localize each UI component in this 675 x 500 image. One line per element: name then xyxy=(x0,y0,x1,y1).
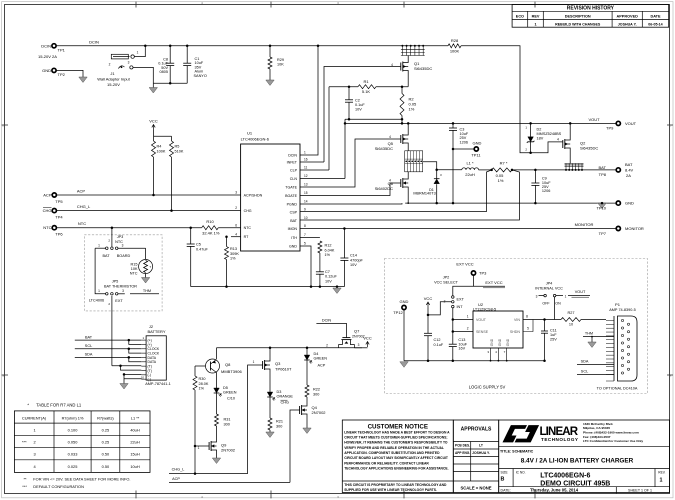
wire Q9 gate xyxy=(195,445,209,447)
wire R4/R5 top bar xyxy=(154,135,172,137)
svg-text:APPLICATION. COMPONENT SUBSTI: APPLICATION. COMPONENT SUBSTITUTION AND … xyxy=(344,451,440,455)
wire D4 to R22 xyxy=(306,360,308,385)
wire L1 to R7 xyxy=(479,169,492,171)
svg-text:10: 10 xyxy=(304,216,308,220)
svg-text:DESCRIPTION: DESCRIPTION xyxy=(565,15,591,19)
wire U2 VIN pin xyxy=(523,319,545,321)
svg-text:D3: D3 xyxy=(277,390,282,394)
resistor R29 xyxy=(269,46,271,57)
resistor R30 xyxy=(194,366,196,376)
svg-text:0.47uF: 0.47uF xyxy=(196,247,209,251)
capacitor C11 xyxy=(544,320,546,332)
svg-text:309K: 309K xyxy=(230,252,239,256)
transistor Q2 xyxy=(562,140,564,148)
svg-text:HOWEVER, IT REMAINS THE CUSTOM: HOWEVER, IT REMAINS THE CUSTOMER'S RESPO… xyxy=(344,441,448,445)
svg-text:VERIFY PROPER AND RELIABLE OPE: VERIFY PROPER AND RELIABLE OPERATION IN … xyxy=(344,446,444,450)
capacitor C7 xyxy=(316,271,324,273)
ground at R15 xyxy=(145,274,147,278)
svg-text:CSP: CSP xyxy=(290,210,298,214)
wire Q8 collector to D5 xyxy=(216,373,218,389)
svg-text:DEFAULT CONFIGURATION: DEFAULT CONFIGURATION xyxy=(33,484,84,489)
wire CLN pin xyxy=(300,178,345,180)
svg-text:C/10: C/10 xyxy=(227,396,235,400)
wire switch node xyxy=(423,162,462,170)
svg-text:REV: REV xyxy=(532,15,540,19)
svg-text:SCL: SCL xyxy=(85,344,92,348)
svg-text:Thursday, June 05, 2014: Thursday, June 05, 2014 xyxy=(530,488,579,493)
svg-text:L1 *: L1 * xyxy=(466,160,474,165)
svg-text:INFET: INFET xyxy=(287,160,298,164)
svg-text:R4: R4 xyxy=(157,145,162,149)
svg-text:DATE:: DATE: xyxy=(501,489,511,493)
resistor R22 xyxy=(305,385,309,397)
svg-text:28.0K: 28.0K xyxy=(199,382,209,386)
size and ic number xyxy=(512,469,514,487)
svg-text:1: 1 xyxy=(34,427,36,432)
svg-text:Q8: Q8 xyxy=(225,362,231,367)
wire Q8 base to R30 xyxy=(195,365,206,367)
svg-text:4700pF: 4700pF xyxy=(350,258,364,262)
svg-text:DATE: DATE xyxy=(650,15,661,19)
wire JP4 common down to VIN net xyxy=(545,297,562,320)
test point TP10 GND xyxy=(616,201,620,205)
svg-text:R1: R1 xyxy=(363,79,369,84)
wire INFET pin xyxy=(300,161,324,163)
svg-text:Q7: Q7 xyxy=(354,329,360,334)
svg-text:300: 300 xyxy=(276,425,282,429)
ground input bus xyxy=(149,88,157,94)
wire DCIN rail xyxy=(57,45,449,47)
wire CSP sense xyxy=(300,170,492,212)
svg-text:VOUT: VOUT xyxy=(625,121,637,126)
svg-text:TP1: TP1 xyxy=(58,48,66,53)
svg-text:MONITOR: MONITOR xyxy=(625,226,644,231)
svg-text:C11: C11 xyxy=(550,328,557,332)
svg-text:ACP: ACP xyxy=(318,363,326,367)
svg-text:0805: 0805 xyxy=(160,70,168,74)
svg-text:TP7: TP7 xyxy=(599,231,607,236)
svg-text:BAT: BAT xyxy=(85,336,93,340)
wire Q3 source from rail xyxy=(269,348,271,358)
svg-text:2: 2 xyxy=(235,206,237,210)
svg-text:GND: GND xyxy=(506,338,510,346)
svg-text:IC NO.: IC NO. xyxy=(516,471,526,475)
wire input ground bus xyxy=(153,82,187,84)
test point TP8 BAT xyxy=(616,168,620,172)
svg-text:BAT: BAT xyxy=(102,254,110,258)
svg-text:LINEAR: LINEAR xyxy=(540,426,579,438)
test point TP1 DCIN xyxy=(52,44,56,48)
svg-text:JP4: JP4 xyxy=(546,282,553,286)
svg-text:LTC4006: LTC4006 xyxy=(89,299,104,303)
svg-text:2N7002: 2N7002 xyxy=(221,448,236,453)
svg-text:4: 4 xyxy=(389,179,391,183)
ground at TP10 xyxy=(598,203,606,209)
resistor R10 xyxy=(202,226,219,230)
svg-text:ITH: ITH xyxy=(291,236,297,240)
svg-text:NTC: NTC xyxy=(130,272,138,276)
LED D5 green xyxy=(214,388,220,393)
svg-text:7: 7 xyxy=(304,233,306,237)
svg-text:CHG: CHG xyxy=(244,209,252,213)
svg-text:25V: 25V xyxy=(550,337,557,341)
svg-text:15-20V: 15-20V xyxy=(107,82,120,87)
wire BAT rail xyxy=(512,169,616,171)
wires P1 pin stubs xyxy=(606,320,614,322)
svg-text:R15: R15 xyxy=(131,262,138,266)
wire DCIN pin to rail xyxy=(300,46,318,155)
LED D3 orange xyxy=(267,392,273,397)
svg-text:100K: 100K xyxy=(450,49,460,54)
svg-text:Q3: Q3 xyxy=(275,361,281,366)
resistor R28 xyxy=(448,44,461,48)
wire TP12 to ground rail xyxy=(403,310,405,361)
svg-text:R21: R21 xyxy=(276,420,283,424)
svg-text:C14: C14 xyxy=(350,254,357,258)
wire INT pin to U2 VOUT net xyxy=(452,308,454,344)
svg-text:1%: 1% xyxy=(199,387,205,391)
svg-text:0.050: 0.050 xyxy=(68,439,79,444)
svg-text:PERFORMANCE OR RELIABILITY. C: PERFORMANCE OR RELIABILITY. CONTACT LINE… xyxy=(344,461,429,465)
svg-text:TECHNOLOGY: TECHNOLOGY xyxy=(541,437,578,442)
svg-text:4: 4 xyxy=(557,138,559,142)
svg-text:10K: 10K xyxy=(277,63,284,67)
svg-text:TP4: TP4 xyxy=(55,215,63,220)
svg-text:R7 *: R7 * xyxy=(500,160,508,165)
svg-text:TP9: TP9 xyxy=(606,126,614,131)
svg-text:ACP: ACP xyxy=(172,477,180,481)
svg-text:TP2: TP2 xyxy=(58,72,66,77)
svg-text:CIRCUIT BOARD LAYOUT MAY SIGNI: CIRCUIT BOARD LAYOUT MAY SIGNIFICANTLY A… xyxy=(344,456,448,460)
transistor Q5 xyxy=(400,135,402,143)
capacitor C5 xyxy=(190,228,192,244)
svg-text:AMP-787441-1: AMP-787441-1 xyxy=(145,382,171,386)
svg-text:2: 2 xyxy=(109,63,111,67)
svg-text:R31: R31 xyxy=(224,418,231,422)
svg-text:1: 1 xyxy=(534,22,536,26)
svg-text:0.25: 0.25 xyxy=(102,427,110,432)
svg-text:2: 2 xyxy=(467,327,469,331)
wire IMON monitor xyxy=(300,228,616,230)
svg-text:GND: GND xyxy=(498,338,502,346)
svg-text:D4: D4 xyxy=(314,352,319,356)
svg-text:10V: 10V xyxy=(350,263,357,267)
resistor R2 xyxy=(401,87,403,94)
wire thermistor to J2 T pins xyxy=(112,365,141,367)
svg-text:1: 1 xyxy=(304,151,306,155)
svg-text:ACP: ACP xyxy=(43,193,52,198)
svg-text:10V: 10V xyxy=(355,108,362,112)
svg-text:10: 10 xyxy=(141,376,145,380)
wire ITH pin to R12 xyxy=(300,237,320,239)
wire D5 to R31 xyxy=(216,393,218,414)
svg-text:DEMO CIRCUIT 495B: DEMO CIRCUIT 495B xyxy=(540,480,610,487)
svg-text:CHG_L: CHG_L xyxy=(172,468,185,472)
svg-text:CLP: CLP xyxy=(290,168,298,172)
wire U2 GND pins to rail xyxy=(490,348,492,361)
resistor R21 xyxy=(268,418,272,430)
customer notice box xyxy=(342,420,453,493)
capacitor C8 xyxy=(169,46,171,63)
transistor Q8 xyxy=(206,359,220,373)
wire BAT sense xyxy=(300,170,519,220)
svg-text:VOUT: VOUT xyxy=(575,290,586,294)
svg-text:8.4V: 8.4V xyxy=(625,168,634,173)
wire rail through Q7 xyxy=(338,345,340,348)
svg-text:LOGIC SUPPLY 5V: LOGIC SUPPLY 5V xyxy=(469,384,506,389)
revision history table xyxy=(512,5,669,28)
resistor R13 xyxy=(226,237,228,247)
svg-text:0.50: 0.50 xyxy=(102,464,110,469)
svg-text:MMSZ5248BS: MMSZ5248BS xyxy=(537,132,562,136)
svg-text:R7(ohm) 1%: R7(ohm) 1% xyxy=(62,415,84,420)
svg-text:VCC: VCC xyxy=(149,118,158,123)
svg-text:3: 3 xyxy=(122,289,124,293)
diode D1 xyxy=(436,170,438,179)
svg-text:1: 1 xyxy=(137,51,139,55)
svg-text:VCC: VCC xyxy=(424,296,433,301)
capacitor C1 xyxy=(186,46,188,63)
resistor R4 xyxy=(153,136,155,141)
svg-text:ACP/SHDN: ACP/SHDN xyxy=(244,193,263,197)
svg-text:APPROVALS: APPROVALS xyxy=(461,427,492,433)
svg-text:EXT: EXT xyxy=(115,299,123,303)
svg-text:VIN: VIN xyxy=(514,318,520,322)
svg-text:300: 300 xyxy=(224,423,230,427)
wire CLP pin xyxy=(300,169,329,171)
ground at Q4 xyxy=(306,417,308,428)
svg-text:6: 6 xyxy=(235,223,237,227)
svg-text:BATTERY: BATTERY xyxy=(147,329,165,334)
dashed outline logic supply xyxy=(385,259,648,394)
wire JP3 pin3 to R15 xyxy=(145,248,147,259)
svg-text:9: 9 xyxy=(304,208,306,212)
svg-text:12: 12 xyxy=(304,174,308,178)
svg-text:R27: R27 xyxy=(568,311,575,315)
svg-text:MMBT3906: MMBT3906 xyxy=(221,369,242,374)
svg-text:THM: THM xyxy=(143,289,151,293)
svg-text:3: 3 xyxy=(235,191,237,195)
svg-text:Si6435DC: Si6435DC xyxy=(414,66,432,71)
svg-text:NTC: NTC xyxy=(78,221,86,226)
svg-text:13: 13 xyxy=(304,183,308,187)
svg-text:15uH: 15uH xyxy=(130,452,139,457)
svg-text:100K: 100K xyxy=(157,149,166,153)
svg-text:C7: C7 xyxy=(325,270,330,274)
svg-text:1%: 1% xyxy=(409,107,415,112)
svg-text:15: 15 xyxy=(304,191,308,195)
svg-text:APP ENG.: APP ENG. xyxy=(455,451,470,455)
wire Q3 drain to D3 xyxy=(269,372,271,392)
svg-text:D5: D5 xyxy=(223,386,228,390)
thermistor R15 xyxy=(139,260,153,274)
transistor Q1 xyxy=(400,63,402,71)
svg-text:TITLE: SCHEMATIC: TITLE: SCHEMATIC xyxy=(500,450,534,454)
svg-text:***: *** xyxy=(22,439,27,444)
svg-text:32.4K 1%: 32.4K 1% xyxy=(202,231,220,236)
svg-text:PCB DES.: PCB DES. xyxy=(455,444,470,448)
svg-text:18V: 18V xyxy=(537,136,544,140)
wire Q2 drain to VOUT rail xyxy=(569,123,571,137)
LED D4 green xyxy=(304,355,310,360)
wire JP5 pin2 to battery connector xyxy=(111,296,113,366)
svg-text:TP3: TP3 xyxy=(479,271,487,276)
ground at Q9 xyxy=(216,453,218,458)
svg-text:1%: 1% xyxy=(230,257,236,261)
svg-text:8: 8 xyxy=(526,315,528,319)
svg-text:L1 **: L1 ** xyxy=(131,415,140,420)
svg-text:D2: D2 xyxy=(537,128,542,132)
wire D4 from rail xyxy=(306,348,308,355)
svg-text:PGND: PGND xyxy=(287,202,298,206)
svg-text:U1: U1 xyxy=(247,131,253,136)
svg-text:22uH: 22uH xyxy=(130,439,139,444)
svg-text:BAT: BAT xyxy=(625,162,633,167)
capacitor C13 xyxy=(449,343,457,345)
ground at P1 THM xyxy=(591,337,593,342)
svg-text:Si6435DC: Si6435DC xyxy=(375,146,393,151)
svg-text:0.033: 0.033 xyxy=(68,452,78,457)
svg-text:300: 300 xyxy=(313,393,319,397)
svg-text:JOSHUA Y.: JOSHUA Y. xyxy=(618,22,637,26)
svg-text:5: 5 xyxy=(304,242,306,246)
wire CHG_L net xyxy=(57,210,241,212)
resistor R1 xyxy=(329,86,358,88)
svg-text:1: 1 xyxy=(253,360,255,364)
svg-text:IMON: IMON xyxy=(288,227,298,231)
svg-text:TO OPTIONAL DC410A: TO OPTIONAL DC410A xyxy=(597,387,638,391)
transistor Q9 xyxy=(208,442,210,450)
svg-text:TP12: TP12 xyxy=(393,310,403,315)
svg-text:10K: 10K xyxy=(131,267,138,271)
wire J1 pin1 to DCIN rail xyxy=(134,46,145,57)
svg-text:JP2: JP2 xyxy=(443,275,450,279)
test point TP7 MONITOR xyxy=(616,226,620,230)
svg-text:VOUT: VOUT xyxy=(476,318,487,322)
svg-text:1%: 1% xyxy=(498,178,504,183)
svg-text:1%: 1% xyxy=(325,253,331,257)
wire NTC net xyxy=(57,227,202,229)
wire R28 to Q2 gate xyxy=(461,46,563,153)
wire VOUT rail xyxy=(345,122,616,124)
svg-text:BGATE: BGATE xyxy=(285,194,298,198)
svg-text:EXT: EXT xyxy=(457,298,465,302)
svg-text:CLN: CLN xyxy=(290,177,298,181)
svg-text:16: 16 xyxy=(304,158,308,162)
svg-text:TP5: TP5 xyxy=(55,199,63,204)
svg-text:BAT: BAT xyxy=(290,219,298,223)
svg-text:SDA: SDA xyxy=(85,353,93,357)
svg-text:CHG: CHG xyxy=(281,400,289,404)
svg-text:EXT VCC: EXT VCC xyxy=(485,280,502,285)
ground at R29 xyxy=(266,80,274,86)
wire Q1 gate from INFET xyxy=(324,67,401,163)
svg-text:VOUT: VOUT xyxy=(588,117,600,122)
svg-text:8.4V / 2A LI-ION BATTERY CHARG: 8.4V / 2A LI-ION BATTERY CHARGER xyxy=(521,457,634,464)
svg-text:TP0610T: TP0610T xyxy=(275,367,292,372)
svg-text:MONITOR: MONITOR xyxy=(575,222,594,227)
wire U2 SHDN pin xyxy=(523,320,533,332)
svg-text:5: 5 xyxy=(527,327,529,331)
svg-text:JOSHUA Y.: JOSHUA Y. xyxy=(472,451,490,455)
svg-text:C5: C5 xyxy=(196,243,201,247)
ground at R21 xyxy=(269,430,271,432)
svg-text:1: 1 xyxy=(565,294,567,298)
svg-text:TECHNOLOGY APPLICATIONS ENGINE: TECHNOLOGY APPLICATIONS ENGINEERING FOR … xyxy=(344,467,448,471)
capacitor C9 xyxy=(534,170,536,183)
transistor Q4 xyxy=(299,406,301,414)
svg-text:R28: R28 xyxy=(451,38,459,43)
svg-text:TP10: TP10 xyxy=(596,206,606,211)
approvals box xyxy=(453,420,498,493)
svg-text:BAT: BAT xyxy=(599,165,607,170)
wire JP4 to VOUT label xyxy=(568,295,590,297)
svg-text:B: B xyxy=(501,476,505,482)
wire Q6 drain from package xyxy=(407,172,409,176)
svg-text:1: 1 xyxy=(98,244,100,248)
wire LED supply rail xyxy=(217,347,363,349)
wire ACP net xyxy=(57,194,241,196)
wire NTC to JP3 xyxy=(111,228,113,247)
svg-text:SHDN: SHDN xyxy=(510,330,521,334)
wire THM stub xyxy=(130,293,159,295)
svg-text:1206: 1206 xyxy=(542,189,550,193)
svg-text:TGATE: TGATE xyxy=(285,185,297,189)
capacitor C2 xyxy=(348,87,350,100)
svg-text:SANYO: SANYO xyxy=(194,74,207,78)
svg-text:510K: 510K xyxy=(175,149,184,153)
svg-text:1: 1 xyxy=(198,446,200,450)
svg-text:DCIN: DCIN xyxy=(41,43,51,48)
transistor Q2 package pins xyxy=(565,169,567,171)
svg-text:GND: GND xyxy=(400,299,409,304)
svg-text:SHEET 1 OF 1: SHEET 1 OF 1 xyxy=(628,489,652,493)
svg-text:DCIN: DCIN xyxy=(322,319,332,323)
transistor Q6 xyxy=(400,179,402,187)
svg-text:3: 3 xyxy=(34,452,36,457)
svg-text:4: 4 xyxy=(235,232,237,236)
wire BGATE to Q6 gate xyxy=(300,183,401,196)
transistor Q1 package pins xyxy=(401,45,403,47)
svg-text:2N7002: 2N7002 xyxy=(312,410,327,415)
svg-text:1: 1 xyxy=(467,315,469,319)
wire CLP to R1 xyxy=(328,87,330,170)
svg-text:GND: GND xyxy=(473,141,482,146)
svg-text:SIZE: SIZE xyxy=(501,470,508,474)
svg-text:CUSTOMER NOTICE: CUSTOMER NOTICE xyxy=(368,423,428,430)
wire JP3 pin1 to JP5 pin1 xyxy=(95,248,105,294)
svg-text:CHG: CHG xyxy=(43,208,52,213)
svg-text:1: 1 xyxy=(660,477,663,483)
svg-text:INT: INT xyxy=(457,305,464,309)
svg-text:0.12uF: 0.12uF xyxy=(325,275,338,279)
wire TGATE to Q5 gate xyxy=(300,139,401,187)
svg-text:10uH: 10uH xyxy=(130,464,139,469)
wire power ground rail xyxy=(405,202,616,204)
svg-text:MBRM140T3: MBRM140T3 xyxy=(413,192,435,196)
svg-text:R13: R13 xyxy=(230,247,237,251)
svg-text:TP8: TP8 xyxy=(599,172,607,177)
svg-text:LT1129CS8-5: LT1129CS8-5 xyxy=(473,307,496,311)
test point TP4 CHG xyxy=(52,209,56,213)
svg-text:GND: GND xyxy=(289,244,297,248)
svg-text:DCIN: DCIN xyxy=(89,40,99,45)
svg-text:10V: 10V xyxy=(325,279,332,283)
svg-text:THM: THM xyxy=(585,332,593,336)
svg-text:RT: RT xyxy=(244,235,250,239)
svg-text:ACP: ACP xyxy=(77,189,86,194)
transistor Q7 xyxy=(342,337,350,339)
